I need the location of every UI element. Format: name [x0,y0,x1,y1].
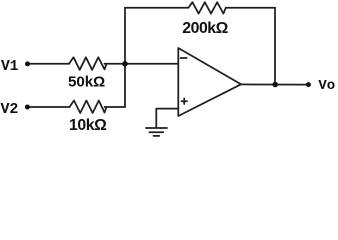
svg-text:10kΩ: 10kΩ [69,117,107,134]
wire V2 input horizontal [27,106,125,108]
wire vertical summing branch [124,8,126,107]
svg-text:V2: V2 [1,101,19,118]
node V2 terminal dot [25,105,30,110]
wire feedback top right [226,7,275,9]
op-amp U1 triangle [178,48,241,116]
resistor R2 10k zigzag [70,101,107,114]
wire output [241,83,308,85]
node summing junction dot [122,61,128,67]
wire feedback right vertical to output node [274,8,276,85]
op-amp plus pin label [182,98,188,104]
resistor RF 200k zigzag [188,2,226,13]
ground [146,128,167,136]
svg-text:Vo: Vo [318,78,335,94]
op-amp minus pin label [181,57,187,59]
resistor R1 50k zigzag [69,57,107,70]
svg-text:200kΩ: 200kΩ [182,20,228,37]
wire V1 input to summing node to op-amp inverting input [28,63,179,65]
svg-text:V1: V1 [1,59,19,75]
wire non-inverting input to ground [156,109,178,127]
node output junction dot [272,82,278,88]
node Vo terminal dot [306,82,311,87]
svg-text:50kΩ: 50kΩ [68,73,105,90]
node V1 terminal dot [25,61,30,66]
wire feedback top left [125,7,188,9]
